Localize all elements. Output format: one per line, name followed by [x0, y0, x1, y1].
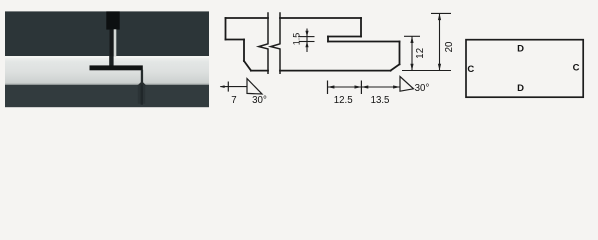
profile left chamfer	[244, 61, 251, 71]
break line 2	[271, 12, 280, 74]
break line 1	[259, 12, 268, 74]
weld line in bottom sheet	[141, 85, 143, 105]
stud flange	[90, 65, 143, 70]
profile bottom edge right of break	[280, 70, 391, 72]
chamfer symbol left 30deg	[247, 79, 262, 94]
arrow right at triangle	[393, 85, 400, 88]
arrow mid pointing right	[355, 85, 362, 88]
photo light sheet band	[5, 56, 209, 84]
arrow left outward	[328, 85, 335, 88]
svg-text:12.5: 12.5	[334, 95, 353, 106]
svg-text:20: 20	[444, 41, 455, 52]
profile top edge left of break	[226, 17, 269, 19]
tick middle	[360, 81, 362, 95]
profile left step vertical	[243, 40, 245, 62]
arrow of dimension 7	[220, 85, 225, 88]
profile left edge	[225, 18, 227, 40]
weld nugget shadow in bottom sheet	[138, 85, 145, 104]
dimension 1.5	[299, 29, 315, 53]
profile right chamfer	[391, 64, 400, 70]
page background	[0, 0, 598, 115]
chain dimension line 12.5 / 13.5	[328, 86, 401, 88]
svg-text:13.5: 13.5	[371, 95, 390, 106]
specimen outline rectangle	[466, 40, 583, 97]
tick left	[327, 81, 329, 95]
stud stem highlight	[114, 29, 117, 56]
chamfer symbol right 30deg	[400, 77, 414, 92]
bright line under dark sheet	[5, 56, 209, 58]
svg-text:1.5: 1.5	[292, 33, 302, 46]
profile slot upper line	[328, 36, 361, 38]
technical drawing	[226, 18, 400, 71]
profile left step horizontal	[226, 39, 245, 41]
svg-text:C: C	[573, 63, 580, 74]
stud stem lower part through light band	[109, 56, 113, 66]
tick of dimension 7	[227, 82, 229, 92]
svg-text:30°: 30°	[415, 83, 430, 94]
profile slot left vertical	[327, 37, 329, 42]
photo bottom dark sheet	[5, 83, 209, 85]
weld joint edge descending	[141, 70, 143, 85]
svg-text:C: C	[467, 64, 474, 75]
profile right edge	[399, 42, 401, 65]
profile slot lower line	[328, 41, 400, 43]
weld joint foot	[137, 81, 146, 85]
dimension 20	[431, 13, 451, 70]
arrow mid pointing left	[361, 85, 368, 88]
dimension 12	[402, 36, 451, 70]
stud stem dark part	[110, 29, 114, 56]
svg-text:D: D	[517, 83, 524, 94]
svg-text:D: D	[517, 44, 524, 55]
profile top edge right of break	[280, 17, 361, 19]
svg-text:7: 7	[231, 95, 236, 106]
svg-text:12: 12	[415, 48, 426, 59]
svg-text:30°: 30°	[252, 95, 267, 106]
profile bottom edge left of break	[251, 70, 268, 72]
dimension 7	[220, 86, 247, 88]
stud head	[106, 11, 119, 29]
photo top dark sheet	[5, 11, 209, 56]
profile right upper vertical	[360, 18, 362, 37]
